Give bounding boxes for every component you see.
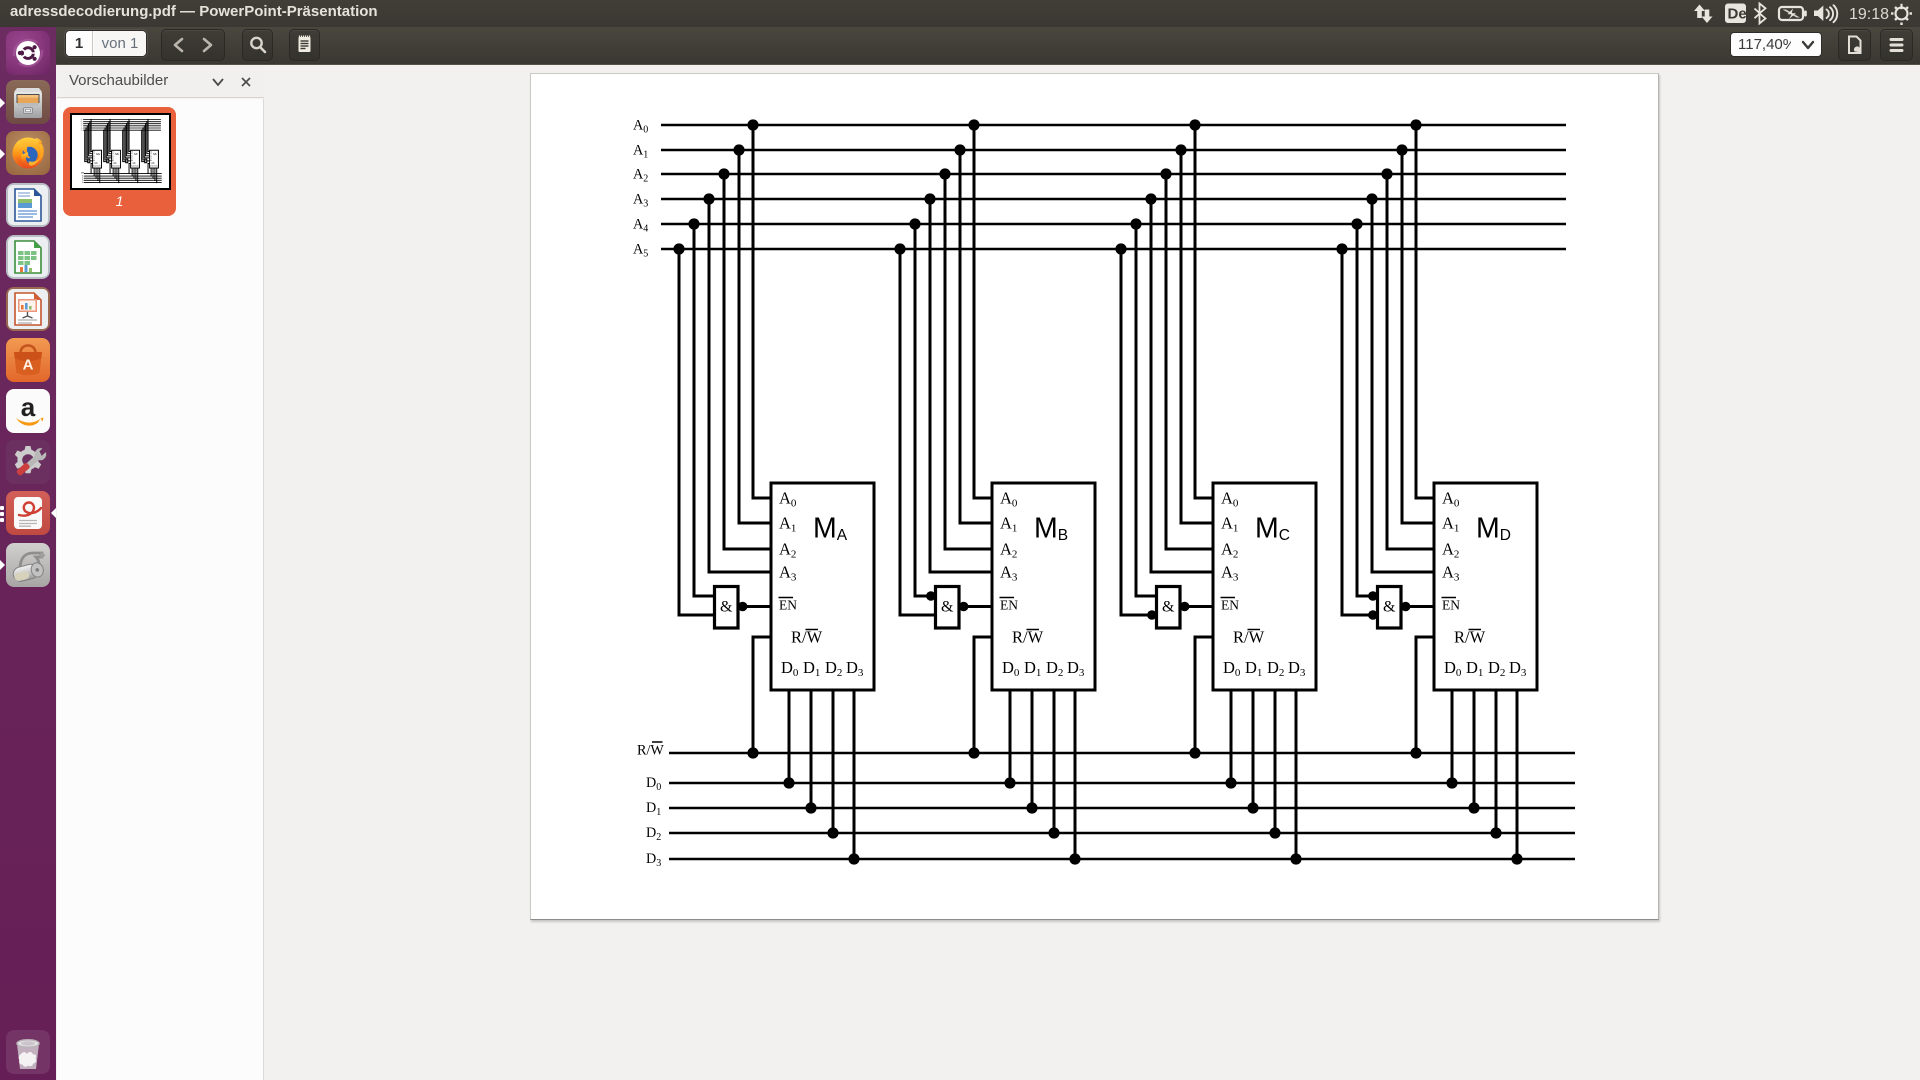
node: junction D0 / MD [1446, 777, 1457, 788]
svg-text:De: De [1728, 6, 1747, 23]
wire: G2 output to EN of MB [959, 605, 992, 608]
wire: A1 tap to MD input [1402, 150, 1434, 523]
wire: R/W bus [669, 752, 1575, 755]
node: junction A3 / MA [703, 193, 714, 204]
node: junction R/W / MD [1410, 747, 1421, 758]
svg-text:A1: A1 [633, 143, 648, 161]
node: junction D2 / MD [1490, 827, 1501, 838]
svg-text:D1: D1 [82, 178, 84, 180]
node: junction D1 / MB [1026, 802, 1037, 813]
wire: D0 pin of MC to D0 bus [1230, 690, 1233, 783]
svg-text:EN: EN [1221, 598, 1239, 613]
wire: D0 pin of MB to D0 bus [1009, 690, 1012, 783]
node: junction A0 / MA [747, 119, 758, 130]
node: junction D2 / MA [827, 827, 838, 838]
wire: A2 tap to MD input [1387, 174, 1434, 549]
node: junction D3 / MA [848, 853, 859, 864]
wire: G4 output to EN of MD [1401, 605, 1434, 608]
svg-text:EN: EN [779, 598, 797, 613]
node: junction D2 / MC [1269, 827, 1280, 838]
wire: A3 tap to MB input [930, 199, 992, 572]
node: junction D3 / MB [1069, 853, 1080, 864]
node: inverted output dot of G1 [738, 602, 748, 612]
svg-text:R/W: R/W [637, 743, 664, 759]
node: junction A0 / MB [968, 119, 979, 130]
svg-text:&: & [1162, 599, 1175, 616]
node: junction A1 / MC [1175, 144, 1186, 155]
node: junction D3 / MD [1511, 853, 1522, 864]
svg-text:D3: D3 [82, 182, 84, 184]
wire: A5 tap to gate G3 [1121, 249, 1157, 615]
node: junction D1 / MC [1247, 802, 1258, 813]
svg-text:A0: A0 [633, 118, 648, 136]
node: inverted input dot (A5) on G3 [1147, 610, 1157, 620]
memory block MD [1434, 483, 1537, 690]
node: junction D0 / MA [783, 777, 794, 788]
wire: D1 pin of MB to D1 bus [1031, 690, 1034, 808]
wire: D2 bus [669, 832, 1575, 835]
node: inverted input dot (A4) on G2 [926, 591, 936, 601]
svg-text:A: A [23, 357, 34, 374]
node: junction D1 / MA [805, 802, 816, 813]
memory block MB [992, 483, 1095, 690]
wire: R/W pin of MA to R/W bus [753, 637, 771, 753]
wire: A0 tap to MB input [974, 125, 992, 498]
node: junction D0 / MC [1225, 777, 1236, 788]
node: junction D0 / MB [1004, 777, 1015, 788]
page-1 thumbnail: miniature of the schematic [70, 113, 171, 190]
node: junction A5 / G3 [1115, 243, 1126, 254]
wire: D2 pin of MD to D2 bus [1495, 690, 1498, 833]
node: inverted output dot of G2 [959, 602, 969, 612]
wire: R/W pin of MD to R/W bus [1416, 637, 1434, 753]
node: junction A4 / G3 [1130, 218, 1141, 229]
and-gate G2 (block select for MB) [936, 587, 960, 629]
wire: address bus line A0 [661, 124, 1566, 127]
svg-text:EN: EN [1000, 598, 1018, 613]
node: junction A4 / G4 [1351, 218, 1362, 229]
wire: D2 pin of MB to D2 bus [1053, 690, 1056, 833]
wire: address bus line A2 [661, 173, 1566, 176]
svg-text:A5: A5 [633, 242, 648, 260]
node: junction A1 / MA [733, 144, 744, 155]
node: junction D3 / MC [1290, 853, 1301, 864]
wire: A2 tap to MA input [724, 174, 771, 549]
wire: A0 tap to MC input [1195, 125, 1213, 498]
wire: D0 pin of MD to D0 bus [1451, 690, 1454, 783]
wire: D3 pin of MA to D3 bus [853, 690, 856, 859]
node: inverted input dot (A4) on G4 [1368, 591, 1378, 601]
wire: A1 tap to MA input [739, 150, 771, 523]
wire: address bus line A1 [661, 149, 1566, 152]
svg-text:&: & [720, 599, 733, 616]
svg-text:&: & [941, 599, 954, 616]
node: junction A0 / MD [1410, 119, 1421, 130]
wire: A1 tap to MC input [1181, 150, 1213, 523]
node: junction D2 / MB [1048, 827, 1059, 838]
node: junction D1 / MD [1468, 802, 1479, 813]
wire: D1 pin of MD to D1 bus [1473, 690, 1476, 808]
wire: A5 tap to gate G2 [900, 249, 936, 615]
svg-text:D0: D0 [646, 775, 661, 793]
wire: R/W pin of MC to R/W bus [1195, 637, 1213, 753]
wire: D3 pin of MB to D3 bus [1074, 690, 1077, 859]
node: junction A1 / MD [1396, 144, 1407, 155]
wire: A3 tap to MD input [1372, 199, 1434, 572]
node: junction A3 / MD [1366, 193, 1377, 204]
svg-text:19:18: 19:18 [1849, 6, 1889, 23]
svg-text:R/W: R/W [1012, 628, 1044, 647]
and-gate G1 (block select for MA) [715, 587, 739, 629]
node: junction A2 / MA [718, 168, 729, 179]
and-gate G4 (block select for MD) [1378, 587, 1402, 629]
wire: D3 bus [669, 858, 1575, 861]
wire: D2 pin of MA to D2 bus [832, 690, 835, 833]
node: junction A0 / MC [1189, 119, 1200, 130]
svg-text:D2: D2 [646, 825, 661, 843]
svg-text:D1: D1 [646, 800, 661, 818]
svg-text:D3: D3 [646, 851, 661, 869]
memory block MC [1213, 483, 1316, 690]
svg-text:R/W: R/W [1233, 628, 1265, 647]
node: inverted input dot (A5) on G4 [1368, 610, 1378, 620]
wire: D0 pin of MA to D0 bus [788, 690, 791, 783]
node: junction A4 / G2 [909, 218, 920, 229]
svg-text:R/W: R/W [151, 163, 155, 165]
svg-text:D2: D2 [82, 180, 84, 182]
svg-text:EN: EN [1442, 598, 1460, 613]
wire: A5 tap to gate G4 [1342, 249, 1378, 615]
wire: A4 tap to gate G2 [915, 224, 936, 596]
svg-text:A2: A2 [633, 167, 648, 185]
wire: address bus line A3 [661, 198, 1566, 201]
svg-text:R/W: R/W [113, 163, 117, 165]
node: junction A2 / MC [1160, 168, 1171, 179]
node: junction A2 / MD [1381, 168, 1392, 179]
node: junction A5 / G1 [673, 243, 684, 254]
wire: D0 bus [669, 782, 1575, 785]
node: inverted output dot of G3 [1180, 602, 1190, 612]
wire: D1 pin of MC to D1 bus [1252, 690, 1255, 808]
wire: A0 tap to MD input [1416, 125, 1434, 498]
node: junction R/W / MB [968, 747, 979, 758]
node: junction A3 / MB [924, 193, 935, 204]
wire: A2 tap to MB input [945, 174, 992, 549]
node: junction A5 / G2 [894, 243, 905, 254]
memory block MA [771, 483, 874, 690]
wire: D1 bus [669, 807, 1575, 810]
wire: A2 tap to MC input [1166, 174, 1213, 549]
and-gate G3 (block select for MC) [1157, 587, 1181, 629]
wire: A4 tap to gate G3 [1136, 224, 1157, 596]
wire: address bus line A5 [661, 248, 1566, 251]
node: junction A5 / G4 [1336, 243, 1347, 254]
wire: D2 pin of MC to D2 bus [1274, 690, 1277, 833]
svg-text:R/W: R/W [1454, 628, 1486, 647]
svg-text:R/W: R/W [94, 163, 98, 165]
wire: D1 pin of MA to D1 bus [810, 690, 813, 808]
node: junction A2 / MB [939, 168, 950, 179]
wire: A0 tap to MA input [753, 125, 771, 498]
svg-text:D0: D0 [82, 175, 84, 177]
svg-text:A0: A0 [81, 118, 83, 121]
wire: A4 tap to gate G4 [1357, 224, 1378, 596]
wire: D3 pin of MC to D3 bus [1295, 690, 1298, 859]
wire: A1 tap to MB input [960, 150, 992, 523]
svg-text:R/W: R/W [132, 163, 136, 165]
svg-text:a: a [21, 392, 36, 422]
wire: D3 pin of MD to D3 bus [1516, 690, 1519, 859]
wire: G1 output to EN of MA [738, 605, 771, 608]
svg-text:&: & [1383, 599, 1396, 616]
node: junction A3 / MC [1145, 193, 1156, 204]
wire: A4 tap to gate G1 [694, 224, 715, 596]
node: junction R/W / MC [1189, 747, 1200, 758]
svg-text:R/W: R/W [791, 628, 823, 647]
wire: A3 tap to MA input [709, 199, 771, 572]
node: junction R/W / MA [747, 747, 758, 758]
node: junction A1 / MB [954, 144, 965, 155]
wire: G3 output to EN of MC [1180, 605, 1213, 608]
node: inverted output dot of G4 [1401, 602, 1411, 612]
circuit schematic: address decoder with four memory blocks [531, 74, 1660, 921]
svg-text:A4: A4 [633, 217, 648, 235]
wire: R/W pin of MB to R/W bus [974, 637, 992, 753]
node: junction A4 / G1 [688, 218, 699, 229]
wire: A5 tap to gate G1 [679, 249, 715, 615]
wire: A3 tap to MC input [1151, 199, 1213, 572]
svg-text:A3: A3 [633, 192, 648, 210]
wire: address bus line A4 [661, 223, 1566, 226]
